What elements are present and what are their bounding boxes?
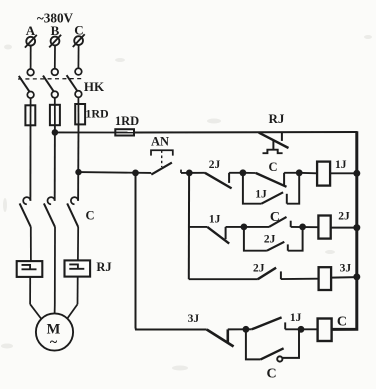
svg-text:RJ: RJ <box>269 111 285 126</box>
svg-text:2J: 2J <box>253 263 265 275</box>
svg-text:2J: 2J <box>264 234 276 246</box>
svg-text:C: C <box>337 315 347 330</box>
svg-text:AN: AN <box>151 135 169 149</box>
svg-text:3J: 3J <box>188 313 200 325</box>
svg-text:~: ~ <box>50 335 58 350</box>
svg-text:2J: 2J <box>338 211 350 223</box>
svg-text:1J: 1J <box>290 312 302 324</box>
svg-text:3J: 3J <box>340 263 352 275</box>
svg-text:HK: HK <box>84 79 105 94</box>
svg-text:RJ: RJ <box>96 260 111 274</box>
svg-text:C: C <box>74 23 83 38</box>
svg-text:1J: 1J <box>209 214 221 226</box>
svg-text:2J: 2J <box>209 159 221 171</box>
svg-text:C: C <box>85 209 94 223</box>
svg-text:C: C <box>270 210 280 225</box>
svg-text:B: B <box>51 23 60 38</box>
svg-text:1J: 1J <box>255 189 267 201</box>
svg-text:1RD: 1RD <box>85 107 109 121</box>
svg-text:1J: 1J <box>335 159 347 171</box>
svg-text:C: C <box>268 160 277 174</box>
svg-text:A: A <box>26 23 36 38</box>
svg-text:1RD: 1RD <box>115 114 139 128</box>
svg-text:C: C <box>266 367 276 382</box>
